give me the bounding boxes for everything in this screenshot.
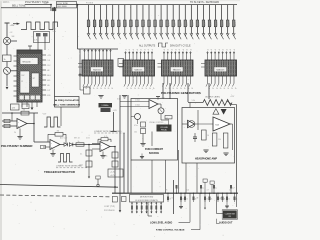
- wire vc down: [151, 132, 153, 147]
- wire fb2: [48, 133, 55, 135]
- box keyboard contacts: [130, 195, 164, 203]
- svg-text:2k: 2k: [180, 88, 182, 90]
- svg-text:c2: c2: [168, 49, 170, 51]
- op-amp A4: [149, 100, 158, 109]
- contact K1: [131, 202, 133, 214]
- wire cs mid: [142, 134, 144, 144]
- resistor R34: [212, 133, 217, 146]
- svg-text:+12V: +12V: [10, 25, 16, 27]
- wire R5 down: [6, 62, 8, 68]
- op-amp A6 pre: [188, 120, 195, 128]
- svg-text:c2: c2: [137, 49, 139, 51]
- wire cs in2: [120, 106, 149, 108]
- wire hp in: [189, 103, 191, 108]
- resistor R5: [3, 55, 12, 62]
- resistor R106: [123, 5, 128, 40]
- resistor R117: [190, 5, 195, 40]
- svg-text:2k: 2k: [220, 88, 222, 90]
- transistor Q4: [135, 114, 141, 120]
- svg-text:2k: 2k: [145, 88, 147, 90]
- svg-text:BELL: BELL: [47, 75, 51, 77]
- resistor R27: [112, 152, 118, 158]
- svg-text:PEDAL: PEDAL: [161, 129, 167, 132]
- op-amp A5 power amp: [213, 117, 230, 131]
- ground G6: [100, 155, 105, 157]
- svg-text:BELL TONE GENERATOR: BELL TONE GENERATOR: [53, 103, 80, 106]
- svg-text:1.5kΩ: 1.5kΩ: [135, 100, 140, 102]
- svg-text:2k: 2k: [191, 88, 193, 90]
- component R24: [41, 145, 46, 148]
- transistor Q1: [3, 37, 10, 44]
- svg-text:LOWEST NOTE DEPRESSED: LOWEST NOTE DEPRESSED: [94, 131, 122, 133]
- scan noise: [6, 1, 235, 237]
- resistor R116: [184, 5, 189, 40]
- svg-text:2k: 2k: [111, 88, 113, 90]
- wire drop x120: [119, 95, 121, 187]
- node J5: [33, 123, 35, 125]
- contact K2: [136, 202, 138, 214]
- ground G9: [223, 152, 228, 154]
- resistor R119: [202, 5, 207, 40]
- svg-text:2k: 2k: [231, 88, 233, 90]
- wire Q1 down: [6, 45, 8, 55]
- arrow Q2: [6, 87, 9, 90]
- wire Q2 down: [6, 74, 8, 86]
- svg-text:870: 870: [229, 216, 232, 218]
- svg-text:2.2: 2.2: [171, 198, 173, 200]
- wire polyphony tone: [25, 4, 51, 6]
- resistor R7 box: [11, 104, 20, 110]
- svg-text:SET 44: SET 44: [74, 138, 80, 140]
- wire drop C: [77, 5, 79, 49]
- svg-text:c2: c2: [190, 49, 192, 51]
- bus component B19: [217, 193, 221, 203]
- svg-text:POLYPHONY SUMMER: POLYPHONY SUMMER: [1, 144, 33, 148]
- svg-text:HEADPHONE AMP: HEADPHONE AMP: [195, 157, 217, 160]
- wire ic1 left drop: [79, 49, 81, 75]
- svg-text:SOURCE: SOURCE: [149, 152, 160, 155]
- ground G10: [140, 156, 144, 158]
- component C2: [22, 104, 29, 109]
- svg-text:1k: 1k: [182, 199, 184, 201]
- svg-text:47k: 47k: [165, 190, 168, 192]
- svg-text:2k: 2k: [176, 88, 178, 90]
- svg-text:2k: 2k: [85, 88, 87, 90]
- svg-text:0.1: 0.1: [80, 154, 82, 156]
- svg-text:4u: 4u: [202, 188, 204, 190]
- arrow U1 out: [31, 107, 34, 110]
- svg-text:-: -: [18, 121, 19, 124]
- box headphone amp: [182, 108, 235, 164]
- diode D2: [69, 143, 72, 147]
- node J8: [114, 186, 116, 188]
- svg-text:22k: 22k: [220, 198, 223, 200]
- ground G7: [140, 143, 145, 145]
- svg-text:50% DUTY CYCLE: 50% DUTY CYCLE: [170, 44, 191, 47]
- ground GLD1: [179, 206, 183, 208]
- component pickup P1: [97, 179, 99, 184]
- svg-text:5.6k: 5.6k: [53, 31, 56, 33]
- wire audio dash: [216, 219, 218, 224]
- wire pre out: [195, 123, 213, 125]
- resistor R107: [129, 5, 134, 40]
- component box B2: [84, 87, 91, 94]
- wire xtal drop: [113, 112, 115, 131]
- speaker CLASSITONE: [223, 211, 237, 219]
- wire amp out: [230, 123, 233, 125]
- svg-text:1k: 1k: [228, 199, 230, 201]
- wire bus to keys: [57, 4, 87, 6]
- wire A1 in2: [2, 125, 17, 127]
- wire hp v1: [197, 110, 199, 130]
- svg-text:P K BUS: P K BUS: [86, 2, 94, 4]
- svg-text:2k: 2k: [212, 88, 214, 90]
- ic U1 left pins: [14, 55, 18, 57]
- dark label box VC: [157, 125, 172, 132]
- wire drop x186: [185, 163, 187, 193]
- bus component B21: [226, 193, 230, 203]
- contact K3: [141, 202, 143, 214]
- svg-text:c2: c2: [230, 49, 232, 51]
- svg-text:c2: c2: [183, 49, 185, 51]
- node J6: [88, 144, 90, 146]
- svg-text:c2: c2: [179, 49, 181, 51]
- ic U5 polyphonic generator: [201, 49, 237, 90]
- title box 44 FREQ OSCILLATOR: [55, 97, 80, 108]
- svg-text:TO 61 KEYS - KEYBOARD: TO 61 KEYS - KEYBOARD: [190, 1, 219, 4]
- svg-text:10: 10: [229, 190, 231, 192]
- svg-text:BUS FEED: BUS FEED: [58, 6, 68, 8]
- resistor R22: [4, 124, 10, 127]
- svg-text:c2: c2: [129, 49, 131, 51]
- svg-text:2k: 2k: [153, 88, 155, 90]
- wire low level tap: [147, 202, 149, 216]
- waveform square wave W1: [21, 22, 58, 30]
- component dark label D3: [99, 103, 113, 107]
- resistor R122: [220, 5, 225, 40]
- svg-text:2k: 2k: [100, 88, 102, 90]
- wire drop x170: [169, 83, 171, 99]
- ic U1 right pins: [42, 54, 46, 56]
- ground G3: [122, 96, 127, 99]
- resistor R120: [208, 5, 213, 40]
- ground G2: [98, 96, 103, 99]
- svg-text:1.5kΩ: 1.5kΩ: [135, 105, 140, 107]
- svg-text:c2: c2: [211, 49, 213, 51]
- svg-text:1k: 1k: [186, 199, 188, 201]
- resistor R102: [99, 5, 104, 40]
- bus component B14: [193, 193, 197, 203]
- wire keyboard bus: [86, 4, 237, 6]
- svg-text:12: 12: [21, 81, 23, 83]
- svg-text:KYBD CONTROL VOLTAGE: KYBD CONTROL VOLTAGE: [156, 229, 185, 232]
- resistor R115: [178, 5, 183, 40]
- svg-text:c2: c2: [219, 49, 221, 51]
- svg-text:c2: c2: [133, 49, 135, 51]
- wire Q4 down: [137, 120, 139, 125]
- capacitor C5: [194, 133, 196, 137]
- wire A3 gnd: [102, 152, 104, 156]
- op-amp A1: [17, 119, 27, 129]
- svg-text:-: -: [101, 144, 102, 147]
- wire box edge drop: [130, 160, 132, 193]
- node J4: [11, 112, 13, 114]
- node J2: [54, 7, 56, 9]
- svg-text:POLYPHONIC GENERATORS: POLYPHONIC GENERATORS: [161, 91, 201, 95]
- resistor R112: [160, 5, 165, 40]
- svg-text:LOW LEVEL AUDIO: LOW LEVEL AUDIO: [150, 221, 172, 224]
- svg-text:+0.2V: +0.2V: [110, 175, 116, 177]
- svg-text:4u: 4u: [232, 188, 234, 190]
- svg-text:2k: 2k: [130, 88, 132, 90]
- svg-text:2k: 2k: [149, 88, 151, 90]
- svg-text:4.7k: 4.7k: [34, 40, 37, 42]
- svg-text:c2: c2: [175, 49, 177, 51]
- svg-text:c2: c2: [226, 49, 228, 51]
- wire coupling column: [88, 145, 90, 177]
- bus component B18: [213, 185, 217, 194]
- contact K5: [150, 202, 152, 214]
- svg-text:AUDIO OUT: AUDIO OUT: [219, 221, 233, 224]
- svg-text:BELL TONE: BELL TONE: [12, 5, 26, 8]
- ic U1 top pin: [29, 46, 31, 50]
- resistor R105: [117, 5, 122, 40]
- resistor R111: [154, 5, 159, 40]
- bus component B17: [209, 193, 213, 203]
- wire A4 out: [158, 103, 161, 105]
- svg-text:ADJ 1.2V: ADJ 1.2V: [60, 137, 68, 140]
- resistor R25: [76, 143, 84, 146]
- ic U1 bottom pins: [21, 102, 23, 107]
- svg-text:2k: 2k: [97, 88, 99, 90]
- wire drop x197: [196, 163, 198, 193]
- ground G8: [203, 149, 208, 151]
- box level ref: [108, 169, 123, 177]
- wire A3 out: [110, 146, 115, 148]
- transistor Q3: [158, 108, 164, 114]
- svg-text:4u: 4u: [178, 188, 180, 190]
- transistor Q2: [4, 67, 11, 74]
- bus component B11: [176, 185, 180, 194]
- power bar T2: [111, 131, 117, 133]
- svg-text:6V80 CURRENT: 6V80 CURRENT: [145, 148, 163, 151]
- resistor R3 block: [52, 8, 56, 12]
- flag F2: [210, 181, 214, 184]
- resistor R31: [141, 129, 146, 134]
- resistor R104: [111, 5, 116, 40]
- svg-text:2k: 2k: [93, 88, 95, 90]
- arrow cont: [119, 210, 122, 212]
- ic U3 polyphonic generator: [119, 49, 155, 90]
- svg-text:4u: 4u: [215, 188, 217, 190]
- svg-text:10k: 10k: [105, 156, 108, 158]
- wire A1 gnd drop: [19, 129, 21, 137]
- svg-text:2k: 2k: [14, 132, 16, 134]
- wire spk right: [236, 193, 238, 207]
- resistor R28: [112, 161, 118, 167]
- svg-text:PEDAL CONTROL: PEDAL CONTROL: [150, 121, 164, 124]
- component box BL1: [112, 197, 117, 203]
- wire bottom solid: [0, 185, 118, 188]
- resistor R123: [226, 5, 231, 40]
- svg-text:POLYPHON: POLYPHON: [104, 210, 115, 212]
- bus component B16: [204, 193, 208, 203]
- resistor R21: [4, 119, 10, 122]
- bus component B12: [180, 193, 184, 203]
- warning triangle T2 wiper: [221, 109, 227, 115]
- wire drop x124: [123, 133, 125, 193]
- resistor R23: [55, 133, 63, 137]
- wire trig run: [73, 144, 100, 146]
- bus component B13: [184, 193, 188, 203]
- flag F1: [203, 179, 207, 182]
- resistor R29: [86, 161, 92, 167]
- wire A2 out: [60, 144, 64, 146]
- svg-text:2k: 2k: [104, 88, 106, 90]
- wire fb drop: [11, 113, 13, 121]
- waveform pulse W3: [58, 154, 73, 163]
- svg-text:c2: c2: [171, 49, 173, 51]
- wire A2 gnd: [52, 150, 54, 154]
- svg-text:c2: c2: [223, 49, 225, 51]
- svg-text:1k: 1k: [206, 199, 208, 201]
- bus component B22: [230, 185, 234, 194]
- svg-text:2k: 2k: [134, 88, 136, 90]
- wire audio tap: [216, 193, 218, 213]
- svg-text:1.5k: 1.5k: [192, 100, 195, 102]
- title box TONE COLLECTOR: [57, 2, 77, 8]
- svg-text:c2: c2: [152, 49, 154, 51]
- bus component B10: [167, 193, 171, 203]
- resistor R109: [141, 5, 146, 40]
- svg-text:44F: 44F: [47, 70, 50, 72]
- svg-text:CONT (TYP): CONT (TYP): [104, 206, 115, 208]
- component R32: [165, 116, 172, 119]
- svg-text:2k: 2k: [227, 88, 229, 90]
- node ic1 circle: [79, 74, 81, 76]
- svg-text:SAA1005: SAA1005: [134, 69, 142, 72]
- wire long drop LD3: [226, 200, 228, 205]
- svg-text:1k: 1k: [224, 199, 226, 201]
- resistor R113: [166, 5, 171, 40]
- svg-text:+1.4V: +1.4V: [110, 172, 116, 174]
- bus component B23: [234, 193, 238, 203]
- svg-text:2k: 2k: [138, 88, 140, 90]
- waveform square wave W2: [44, 117, 61, 127]
- warning triangle T1: [213, 109, 219, 115]
- svg-text:VOLUME: VOLUME: [160, 127, 168, 129]
- resistor R103: [105, 5, 110, 40]
- svg-text:c2: c2: [207, 49, 209, 51]
- wire A2 in2: [43, 146, 50, 148]
- svg-text:10k: 10k: [187, 190, 190, 192]
- resistor R110: [148, 5, 153, 40]
- resistor R108: [135, 5, 140, 40]
- wire A1 out: [27, 123, 34, 125]
- wire long drop LD2: [204, 200, 206, 207]
- ic U1 44-freq oscillator chip: [17, 50, 42, 102]
- svg-text:4.7: 4.7: [207, 190, 209, 192]
- svg-text:LOWEST NOTE DETECTED: LOWEST NOTE DETECTED: [56, 166, 82, 168]
- svg-text:ALL OUTPUTS: ALL OUTPUTS: [139, 44, 156, 47]
- svg-text:1k: 1k: [78, 141, 80, 143]
- component box BL2: [122, 197, 127, 202]
- wire Q3 down: [160, 114, 162, 120]
- diode D1: [64, 143, 67, 147]
- wire drop x188: [187, 83, 189, 102]
- wire drop B: [54, 8, 56, 97]
- ground G5: [50, 153, 55, 155]
- box 6V80 current source: [131, 99, 178, 161]
- resistor R20: [21, 111, 29, 115]
- resistor R101: [93, 5, 98, 40]
- svg-text:c2: c2: [215, 49, 217, 51]
- svg-text:OUT: OUT: [47, 90, 51, 92]
- contact K4: [146, 202, 148, 214]
- waveform duty glyph: [159, 43, 169, 47]
- resistor R30: [141, 122, 146, 127]
- resistor R26: [101, 138, 108, 141]
- svg-text:TRIGGER EXTRACTOR: TRIGGER EXTRACTOR: [44, 170, 75, 174]
- potentiometer zigzag: [188, 102, 203, 104]
- svg-text:c2: c2: [141, 49, 143, 51]
- arrow LD2: [204, 208, 206, 210]
- resistor R114: [172, 5, 177, 40]
- wire out down: [33, 124, 35, 143]
- op-amp A3: [100, 142, 110, 152]
- svg-text:100K: 100K: [90, 21, 92, 26]
- wire bell tone: [1, 7, 51, 9]
- wire pre in: [182, 123, 188, 125]
- svg-text:c2: c2: [187, 49, 189, 51]
- svg-text:3.58MHz: 3.58MHz: [101, 105, 108, 107]
- svg-text:100k: 100k: [44, 3, 48, 5]
- svg-text:c2: c2: [125, 49, 127, 51]
- svg-text:BT: BT: [33, 78, 35, 80]
- resistor R33: [202, 130, 207, 140]
- wire long drop LD1: [180, 200, 182, 206]
- svg-text:2k: 2k: [126, 88, 128, 90]
- wire out up: [33, 113, 35, 124]
- wire cluster drop1: [37, 43, 39, 51]
- svg-text:c2: c2: [164, 49, 166, 51]
- svg-text:220: 220: [218, 139, 221, 141]
- bus component B20: [222, 193, 226, 203]
- resistor R100: [87, 5, 92, 40]
- svg-text:2k: 2k: [108, 88, 110, 90]
- wire drop x173: [173, 180, 175, 214]
- bottom bus: [112, 192, 238, 194]
- svg-text:10k: 10k: [134, 132, 137, 134]
- arrow column: [88, 176, 90, 178]
- svg-text:2k: 2k: [165, 88, 167, 90]
- wire cs out: [151, 160, 153, 193]
- wire j8 drop: [114, 187, 116, 193]
- wire osc drop: [60, 107, 62, 126]
- ic U4 polyphonic generator: [158, 49, 194, 90]
- wire zig out: [227, 101, 232, 105]
- wire low level link: [179, 221, 191, 223]
- svg-text:2k: 2k: [184, 88, 186, 90]
- ground G1: [17, 136, 22, 138]
- resistor R124: [232, 5, 237, 40]
- wire bottom dashed: [0, 195, 110, 197]
- power +12V A4: [156, 96, 160, 98]
- resistor R118: [196, 5, 201, 40]
- svg-text:OUTPUT LEVEL: OUTPUT LEVEL: [205, 96, 221, 98]
- svg-text:c2: c2: [148, 49, 150, 51]
- svg-text:2k: 2k: [224, 88, 226, 90]
